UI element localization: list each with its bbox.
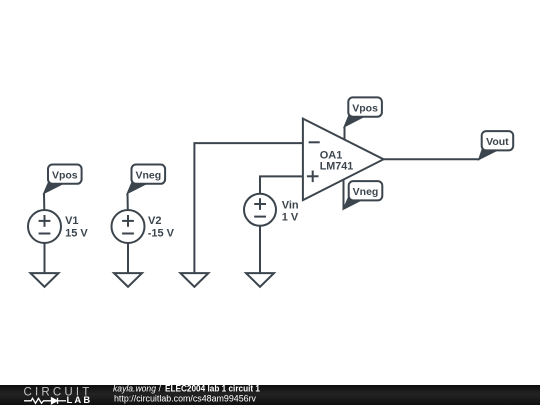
wire OA1 negative supply pin [343, 180, 345, 209]
wire inverting input net [194, 143, 303, 273]
value label V1 15 V [65, 215, 88, 240]
svg-text:Vout: Vout [486, 136, 509, 148]
value label Vin 1 V [282, 200, 299, 224]
svg-text:Vneg: Vneg [135, 170, 161, 182]
net flag Vpos on OA1 supply [345, 97, 382, 126]
value label V2 -15 V [148, 215, 175, 240]
net flag Vout on output [479, 131, 513, 159]
wire Vin to non-inverting input [260, 176, 303, 194]
net flag Vneg on OA1 supply [344, 181, 383, 209]
wire V1 flag stub [43, 193, 45, 210]
svg-text:LM741: LM741 [320, 161, 354, 173]
ground below V1 [31, 273, 59, 287]
CircuitLab logo circuit glyph [24, 398, 66, 404]
svg-text:Vpos: Vpos [352, 103, 378, 115]
svg-text:ELEC2004 lab 1 circuit 1: ELEC2004 lab 1 circuit 1 [165, 383, 260, 393]
svg-text:Vneg: Vneg [353, 186, 379, 198]
op-amp OA1 body [303, 119, 384, 201]
svg-text:Vin: Vin [282, 200, 299, 212]
ground on inverting input net [180, 273, 208, 287]
net flag Vpos on V1 [44, 165, 82, 194]
svg-text:V2: V2 [148, 215, 161, 227]
footer title text [113, 383, 260, 393]
svg-text:Vpos: Vpos [52, 170, 78, 182]
op-amp OA1 non-inverting input marker [307, 171, 319, 183]
wire OA1 positive supply pin [344, 127, 346, 140]
footer bar [0, 385, 540, 405]
ground below Vin [246, 273, 274, 287]
voltage source V2 [112, 210, 145, 243]
voltage source V1 [28, 210, 61, 243]
wire V2 flag stub [127, 193, 129, 210]
net flag Vneg on V2 [128, 165, 166, 194]
svg-text:-15 V: -15 V [148, 228, 175, 240]
svg-text:kayla.wong: kayla.wong [113, 383, 156, 393]
svg-text:1 V: 1 V [282, 211, 299, 223]
wire V1 to ground [44, 243, 46, 274]
voltage source Vin [244, 194, 276, 226]
svg-text:http://circuitlab.com/cs48am99: http://circuitlab.com/cs48am99456rv [114, 393, 256, 403]
wire Vin to ground [259, 226, 261, 274]
svg-text:LAB: LAB [67, 394, 93, 405]
svg-text:15 V: 15 V [65, 228, 88, 240]
svg-text:V1: V1 [65, 215, 78, 227]
label OA1 LM741 [320, 150, 354, 173]
wire OA1 output to Vout [384, 158, 480, 160]
ground below V2 [114, 273, 142, 287]
wire V2 to ground [127, 243, 129, 274]
op-amp OA1 inverting input marker [309, 141, 320, 143]
